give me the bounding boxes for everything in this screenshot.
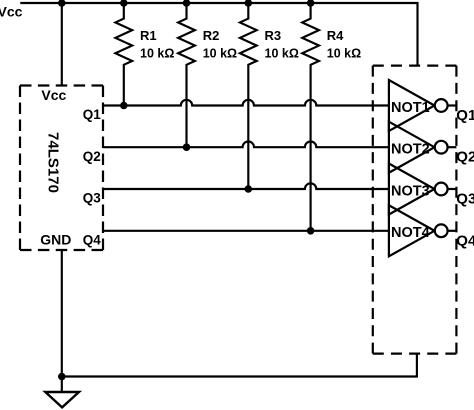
svg-text:Q2: Q2: [456, 149, 474, 166]
svg-text:10 kΩ: 10 kΩ: [140, 47, 174, 61]
svg-text:10 kΩ: 10 kΩ: [203, 47, 237, 61]
svg-text:R4: R4: [327, 28, 344, 43]
svg-text:Q1: Q1: [83, 107, 102, 122]
svg-text:10 kΩ: 10 kΩ: [265, 47, 299, 61]
svg-text:Q4: Q4: [83, 232, 102, 247]
svg-text:NOT3: NOT3: [391, 183, 430, 199]
svg-text:NOT2: NOT2: [391, 142, 430, 158]
svg-text:NOT4: NOT4: [391, 225, 430, 241]
svg-text:10 kΩ: 10 kΩ: [327, 47, 361, 61]
svg-text:Q2: Q2: [83, 149, 101, 164]
svg-text:Vcc: Vcc: [41, 87, 66, 103]
svg-text:Q1: Q1: [456, 107, 474, 124]
svg-text:Q4: Q4: [456, 232, 474, 249]
svg-text:R1: R1: [140, 28, 157, 43]
svg-text:Q3: Q3: [83, 191, 102, 206]
svg-text:74LS170: 74LS170: [45, 132, 62, 193]
svg-text:NOT1: NOT1: [391, 100, 430, 116]
svg-text:GND: GND: [40, 231, 71, 247]
svg-text:Vcc: Vcc: [0, 4, 23, 20]
svg-text:R2: R2: [203, 28, 220, 43]
svg-text:R3: R3: [265, 28, 282, 43]
svg-text:Q3: Q3: [456, 191, 474, 208]
